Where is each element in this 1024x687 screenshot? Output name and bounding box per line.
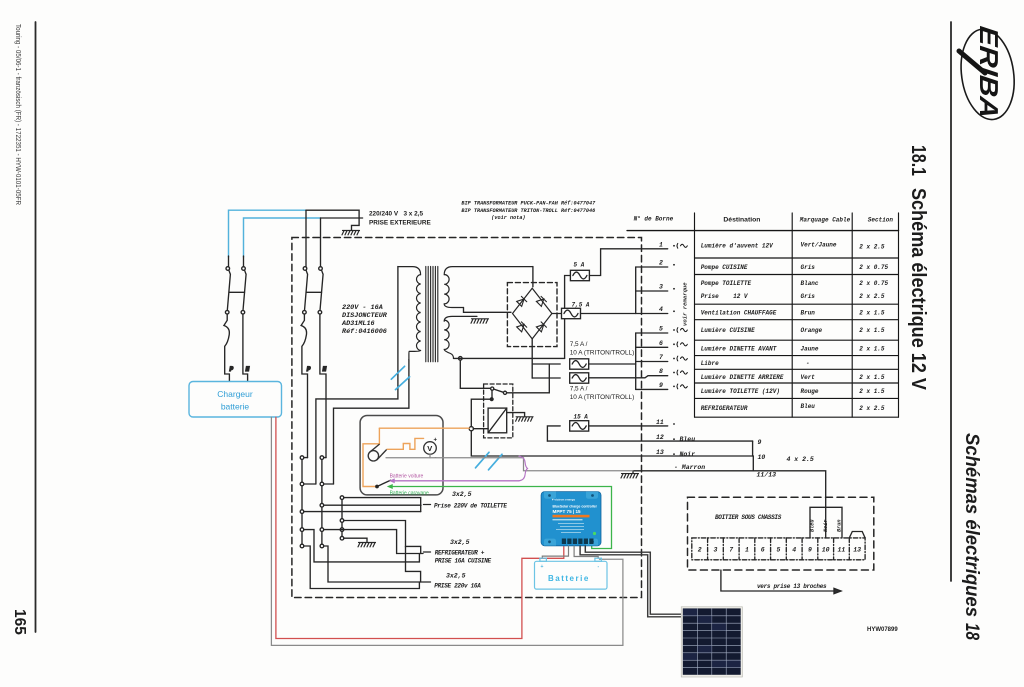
svg-text:3: 3 xyxy=(713,547,717,554)
bridge rectifier dashed box xyxy=(507,283,557,347)
wire to terminal 3 xyxy=(636,290,668,292)
fuse F1 5A xyxy=(570,270,589,280)
svg-text:Brun: Brun xyxy=(801,310,816,317)
wire fuse F2 to terminal 4 xyxy=(581,313,668,315)
label dash toilette xyxy=(424,504,431,506)
svg-text:-: - xyxy=(435,456,437,462)
svg-text:P: P xyxy=(230,366,234,373)
junction dot relay xyxy=(490,398,493,401)
wire line marron to boitier xyxy=(633,471,826,538)
svg-text:Brun: Brun xyxy=(837,520,843,532)
transformer T1 core xyxy=(426,267,438,362)
junction secondary bottom xyxy=(459,357,463,361)
breaker Q1 pole N xyxy=(241,267,248,382)
table vertical col3 xyxy=(851,213,853,417)
breaker Q2 pole N xyxy=(318,267,326,458)
wire 230V rail L to prise exterieure xyxy=(306,210,359,230)
svg-text:Batterie caravane: Batterie caravane xyxy=(390,490,429,496)
svg-text:Vert/Jaune: Vert/Jaune xyxy=(801,242,837,249)
table vertical left edge xyxy=(694,213,696,417)
relay K1 switch to junction xyxy=(491,390,493,399)
svg-text:Batterie: Batterie xyxy=(548,574,590,583)
svg-text:6: 6 xyxy=(761,547,765,554)
svg-text:220V - 16A: 220V - 16A xyxy=(342,304,383,312)
wire mppt bat+ to battery xyxy=(542,546,568,558)
fuse F3 7,5/10A triton xyxy=(570,359,589,369)
svg-text:Batterie voiture: Batterie voiture xyxy=(390,473,424,479)
svg-text:Gris: Gris xyxy=(801,264,816,271)
breaker Q2 tie bar xyxy=(307,291,322,293)
motor drive symbol xyxy=(368,444,386,461)
junction circles bus3 xyxy=(340,496,344,540)
svg-text:(voir nota): (voir nota) xyxy=(491,215,525,221)
fuse F5 15A xyxy=(570,421,589,431)
junction circles bus1 xyxy=(300,456,304,548)
svg-text:220/240 V 3 x 2,5: 220/240 V 3 x 2,5 xyxy=(369,211,423,218)
wire toilette PE xyxy=(344,498,421,512)
svg-text:7,5 A /: 7,5 A / xyxy=(570,341,588,348)
terminal dot 3 xyxy=(673,288,675,290)
ground at transformer center tap xyxy=(471,319,489,323)
wire orange to relay terminal xyxy=(379,427,469,429)
terminal symbol 7 xyxy=(673,356,687,361)
svg-text:Lumière d'auvent 12V: Lumière d'auvent 12V xyxy=(701,243,774,250)
svg-text:+: + xyxy=(541,564,544,570)
ground at relay coil xyxy=(516,417,534,421)
wire refrigerateur label line xyxy=(397,553,423,555)
solar panel PV1 xyxy=(681,607,742,677)
section title 18.1 Schema electrique 12 V xyxy=(907,145,929,391)
svg-text:Noir: Noir xyxy=(680,451,696,458)
svg-text:MPPT 75 | 15: MPPT 75 | 15 xyxy=(553,509,582,514)
svg-text:18.1: 18.1 xyxy=(907,145,929,176)
svg-text:2 x 1.5: 2 x 1.5 xyxy=(859,374,885,381)
svg-text:AD31ML16: AD31ML16 xyxy=(341,320,375,328)
wire prise220 L xyxy=(304,546,420,589)
wire solar PV pair A xyxy=(585,546,682,614)
solar charge controller MPPT xyxy=(541,492,601,546)
svg-text:7,5 A /: 7,5 A / xyxy=(570,386,588,393)
wire coil left lead xyxy=(473,428,488,430)
svg-text:Libre: Libre xyxy=(701,360,719,367)
label 220V 16A disjoncteur xyxy=(341,304,388,336)
node terminal circle relay coil xyxy=(469,427,473,431)
wire charger gray output to battery xyxy=(271,417,623,645)
svg-text:10 A (TRITON/TROLL): 10 A (TRITON/TROLL) xyxy=(570,350,635,357)
table vertical right edge xyxy=(898,213,900,417)
svg-text:7,5 A: 7,5 A xyxy=(572,302,590,309)
bus column 1 vertical xyxy=(301,458,303,546)
table header underline xyxy=(627,230,898,232)
wire refrigerateur L xyxy=(304,530,420,562)
svg-text:2 x 1.5: 2 x 1.5 xyxy=(859,346,885,353)
bus column 3 vertical xyxy=(341,498,343,539)
svg-text:10: 10 xyxy=(758,454,766,461)
svg-text:Marquage Cable: Marquage Cable xyxy=(799,217,851,224)
svg-text:Vert: Vert xyxy=(801,374,816,381)
chapter title Schemas electriques 18 xyxy=(961,433,982,640)
relay K1 switch xyxy=(491,387,507,394)
svg-text:vers prise 13 broches: vers prise 13 broches xyxy=(757,583,827,590)
relay K1 coil xyxy=(488,408,507,433)
battery B1 box xyxy=(535,558,608,589)
svg-text:13: 13 xyxy=(656,449,664,456)
bridge rectifier diamond xyxy=(513,288,552,339)
svg-text:9: 9 xyxy=(808,547,812,554)
svg-text:Lumière DINETTE AVANT: Lumière DINETTE AVANT xyxy=(701,346,777,353)
fuse F4 7,5/10A triton xyxy=(570,373,589,383)
svg-text:5: 5 xyxy=(776,547,780,554)
svg-text:Gris: Gris xyxy=(801,293,816,300)
table row line 2 xyxy=(695,274,899,276)
wire drop to breaker Q2 pole N xyxy=(320,218,322,267)
wire drop to breaker Q1 pole N xyxy=(243,256,245,267)
svg-text:BIP TRANSFORMATEUR PUCK-PAN-FA: BIP TRANSFORMATEUR PUCK-PAN-FAH Réf:0477… xyxy=(461,201,596,207)
svg-text:Touring - 05/06-1 - französisc: Touring - 05/06-1 - französisch (FR) - 1… xyxy=(14,24,23,205)
svg-text:11: 11 xyxy=(656,419,664,426)
wire drop to breaker Q1 pole L xyxy=(228,256,230,267)
diode D1 upper left xyxy=(517,296,527,306)
wire mppt bat- to battery xyxy=(574,546,598,558)
svg-text:2: 2 xyxy=(659,260,663,267)
cable mark battery lines (blue slashes) xyxy=(476,452,503,470)
svg-text:Déstination: Déstination xyxy=(723,217,760,224)
hat over terminal 13 xyxy=(849,532,865,538)
svg-text:5 A: 5 A xyxy=(574,262,585,269)
svg-text:Chargeur: Chargeur xyxy=(217,389,253,399)
terminal dot 4 xyxy=(673,310,675,312)
svg-text:2 x 1.5: 2 x 1.5 xyxy=(859,388,885,395)
svg-text:REFRIGERATEUR: REFRIGERATEUR xyxy=(701,405,748,412)
svg-text:+: + xyxy=(434,438,438,444)
svg-text:5: 5 xyxy=(659,326,663,333)
ERIBA logo xyxy=(956,25,1020,123)
svg-text:Lumière CUISINE: Lumière CUISINE xyxy=(701,327,755,334)
svg-text:11: 11 xyxy=(837,547,845,554)
wire primary bottom lead down xyxy=(334,360,409,485)
terminal dot 11 xyxy=(673,423,675,425)
wire to terminal 5 xyxy=(636,332,668,334)
bracket over terminals 9-11 xyxy=(810,507,842,538)
svg-text:BIP TRANSFORMATEUR TRITON-TROL: BIP TRANSFORMATEUR TRITON-TROLL Réf:0477… xyxy=(461,208,595,214)
svg-text:Schémas électriques: Schémas électriques xyxy=(961,433,982,617)
diode D2 upper right xyxy=(536,296,546,306)
boitier sous chassis dashed box xyxy=(688,497,874,570)
table row line 6 xyxy=(695,355,899,357)
svg-text:Réf:0416006: Réf:0416006 xyxy=(342,328,387,336)
wire toilette N xyxy=(324,504,421,506)
svg-text:Ventilation CHAUFFAGE: Ventilation CHAUFFAGE xyxy=(701,310,777,317)
wire to terminal 6 xyxy=(636,346,668,348)
svg-text:2: 2 xyxy=(698,547,702,554)
svg-text:8: 8 xyxy=(659,368,663,375)
wire 230V rail L (blue feed to charger breakers) xyxy=(229,210,307,257)
svg-text:1: 1 xyxy=(659,242,663,249)
arrow vers prise 13 broches xyxy=(721,570,841,594)
wire charger red output xyxy=(276,417,564,638)
right page rule xyxy=(950,22,952,581)
wire solar PV pair B xyxy=(580,546,682,617)
wire orange shunt to voltmeter xyxy=(387,438,424,449)
svg-text:7: 7 xyxy=(659,354,663,361)
wire coil right lead to ground xyxy=(507,413,525,417)
svg-text:N: N xyxy=(323,366,327,373)
svg-text:P: P xyxy=(307,366,311,373)
wire terminal 2-3 branch vertical xyxy=(635,267,637,314)
wire orange down to selector xyxy=(363,428,379,486)
label dash refrigerateur xyxy=(424,551,431,553)
svg-text:2 x 2.5: 2 x 2.5 xyxy=(859,405,885,412)
svg-text:Pompe TOILETTE: Pompe TOILETTE xyxy=(701,280,752,287)
svg-text:PRISE 16A CUISINE: PRISE 16A CUISINE xyxy=(435,558,492,565)
wire drop to breaker Q2 pole L xyxy=(305,210,307,267)
ground on marron line xyxy=(621,471,639,478)
svg-text:Blanc: Blanc xyxy=(801,280,819,287)
svg-text:Rouge: Rouge xyxy=(801,388,819,395)
breaker Q2 (main) pole L xyxy=(301,267,308,458)
wire line 12 Bleu xyxy=(547,440,752,442)
table row line 7 xyxy=(695,368,899,370)
svg-text:ERIBA: ERIBA xyxy=(974,25,1004,120)
wire to terminal 9 xyxy=(636,388,668,390)
left page rule xyxy=(35,22,37,632)
wire bridge minus to relay switch xyxy=(507,364,550,393)
main caravan dashed box xyxy=(292,238,642,598)
wire refrigerateur N xyxy=(324,530,397,554)
wire voltmeter minus (gray) xyxy=(386,458,633,471)
selector switch lever xyxy=(376,480,391,487)
svg-text:10: 10 xyxy=(822,547,830,554)
wire toilette L xyxy=(304,511,421,513)
tap transformer N to bus2 xyxy=(324,483,334,485)
svg-text:Bleu: Bleu xyxy=(680,436,696,443)
svg-text:9: 9 xyxy=(659,382,663,389)
svg-text:BOITIER SOUS CHASSIS: BOITIER SOUS CHASSIS xyxy=(715,514,782,521)
svg-text:3: 3 xyxy=(659,284,663,291)
terminal dot 13 xyxy=(673,453,675,455)
table row line 9 xyxy=(695,397,899,399)
wire refrigerateur PE prise branch xyxy=(406,546,421,582)
svg-text:13: 13 xyxy=(853,547,861,554)
wire fuse F5 to terminal 11 xyxy=(589,425,668,427)
svg-text:Noir: Noir xyxy=(823,520,829,532)
svg-text:PRISE EXTERIEURE: PRISE EXTERIEURE xyxy=(369,220,432,227)
svg-text:Bleu: Bleu xyxy=(801,403,816,410)
svg-text:2 x 2.5: 2 x 2.5 xyxy=(859,244,885,251)
terminal dot 2 xyxy=(673,264,675,266)
table row line 1 xyxy=(695,257,899,259)
battery switch box U1 xyxy=(360,416,443,495)
svg-text:-: - xyxy=(598,564,600,570)
svg-text:15 A: 15 A xyxy=(574,414,589,421)
svg-text:4 x 2.5: 4 x 2.5 xyxy=(787,456,814,463)
wire prise220 N xyxy=(324,546,423,582)
svg-text:▾ victron energy: ▾ victron energy xyxy=(551,498,575,502)
transformer T1 secondary lower winding xyxy=(444,316,477,358)
wire terminal 5-9 branch vertical xyxy=(635,333,637,389)
wire junction to coil terminal xyxy=(471,399,491,426)
svg-text:4: 4 xyxy=(659,306,663,313)
svg-text:18: 18 xyxy=(961,623,982,640)
wire to terminal 2 xyxy=(636,266,668,268)
wire bridge minus to fuse F3 xyxy=(532,363,560,365)
wire line 13 to marron bracket xyxy=(752,441,755,471)
label dash prise220 xyxy=(424,581,431,583)
wire secondary bottom to relay switch xyxy=(460,360,490,388)
svg-text:2 x 1.5: 2 x 1.5 xyxy=(859,310,885,317)
wire voltmeter minus stub xyxy=(429,455,431,458)
diode D3 lower left xyxy=(517,322,527,332)
wire fuse F4 to terminal 8 xyxy=(589,376,668,378)
svg-text:- Marron: - Marron xyxy=(674,464,705,471)
table vertical col2 xyxy=(791,213,793,417)
wire fuse F1 to terminal 1 xyxy=(589,249,667,276)
svg-text:Lumière DINETTE ARRIERE: Lumière DINETTE ARRIERE xyxy=(701,374,784,381)
wire secondary bottom rail xyxy=(454,357,565,359)
wire secondary top to bridge xyxy=(532,267,534,287)
svg-text:voir remarque: voir remarque xyxy=(682,282,689,326)
wire secondary center tap to bridge xyxy=(464,308,512,313)
svg-text:Section: Section xyxy=(868,217,894,224)
wire batterie voiture (purple) xyxy=(391,456,528,482)
voltmeter V1 xyxy=(424,438,438,462)
svg-text:BlueSolar charge controller: BlueSolar charge controller xyxy=(553,505,598,509)
svg-text:Pompe CUISINE: Pompe CUISINE xyxy=(701,264,748,271)
wire relay terminal to line 13 xyxy=(471,431,752,456)
terminal symbol 6 xyxy=(673,342,687,347)
svg-text:11/13: 11/13 xyxy=(757,472,777,479)
cable mark primary (blue slashes) xyxy=(391,366,409,389)
terminal symbol 8 xyxy=(673,370,687,375)
tap breaker P to bus1 xyxy=(304,457,308,459)
table row line 3 xyxy=(695,303,899,305)
wire fuse F3 to terminals 5-9 xyxy=(589,363,636,365)
svg-text:3x2,5: 3x2,5 xyxy=(450,539,470,546)
tap transformer L to bus1 xyxy=(304,483,316,485)
breaker Q1 tie bar xyxy=(230,291,245,293)
charger box Chargeur batterie xyxy=(189,382,282,418)
svg-text:9: 9 xyxy=(758,439,762,446)
svg-text:REFRIGERATEUR +: REFRIGERATEUR + xyxy=(435,550,485,557)
wire bridge minus down xyxy=(531,339,534,378)
svg-text:-: - xyxy=(806,360,810,367)
table row line 5 xyxy=(695,339,899,341)
ground on PE bus xyxy=(344,538,376,547)
transformer T1 secondary upper winding xyxy=(444,267,533,308)
wire fuse F4 feed xyxy=(532,377,560,379)
wire 230V rail N to prise exterieure xyxy=(321,217,363,219)
wire primary top lead down xyxy=(316,267,398,484)
table row line 4 xyxy=(695,319,899,321)
breaker Q1 (charger) pole L xyxy=(224,267,231,381)
fuse F2 7,5A xyxy=(562,308,581,318)
terminal symbol 5 xyxy=(673,328,687,333)
svg-text:Orange: Orange xyxy=(801,327,823,334)
chassis terminal strip xyxy=(692,538,865,560)
wire to terminal 7 xyxy=(636,361,668,363)
svg-text:2 x 1.5: 2 x 1.5 xyxy=(859,327,885,334)
relay K1 dashed box xyxy=(484,384,513,438)
junction circles bus2 xyxy=(320,456,324,548)
svg-text:batterie: batterie xyxy=(221,402,250,412)
wire refrigerateur PE xyxy=(344,521,421,554)
transformer T1 primary winding xyxy=(398,267,421,360)
svg-text:N: N xyxy=(246,366,250,373)
svg-text:Prise 12 V: Prise 12 V xyxy=(701,293,749,300)
svg-text:1: 1 xyxy=(745,547,749,554)
tap breaker N to bus2 xyxy=(324,457,326,459)
svg-text:10 A (TRITON/TROLL): 10 A (TRITON/TROLL) xyxy=(570,394,635,401)
svg-text:V: V xyxy=(427,444,432,453)
svg-text:HYW07899: HYW07899 xyxy=(867,627,898,633)
wire 230V rail N (blue feed) xyxy=(244,218,321,257)
svg-text:12: 12 xyxy=(656,434,664,441)
terminal symbol 9 xyxy=(673,384,687,389)
terminal dot 12 xyxy=(673,438,675,440)
wire batterie caravane (green) xyxy=(389,485,612,549)
svg-text:Jaune: Jaune xyxy=(801,346,819,353)
table row line 8 xyxy=(695,382,899,384)
table bottom line xyxy=(695,416,899,418)
svg-text:4: 4 xyxy=(792,547,796,554)
svg-text:Lumière TOILETTE (12V): Lumière TOILETTE (12V) xyxy=(701,388,780,395)
svg-text:2 x 0.75: 2 x 0.75 xyxy=(859,264,888,271)
wire 15A feed from line 12 xyxy=(547,426,560,441)
svg-text:3x2,5: 3x2,5 xyxy=(452,491,472,498)
svg-text:N° de Borne: N° de Borne xyxy=(634,216,674,223)
svg-text:2 x 0.75: 2 x 0.75 xyxy=(859,280,888,287)
svg-text:165: 165 xyxy=(11,609,28,635)
terminal symbol 1 xyxy=(673,243,687,248)
wire bridge plus to fuse F2 xyxy=(552,313,562,315)
svg-text:3x2,5: 3x2,5 xyxy=(446,573,466,580)
diode D4 lower right xyxy=(536,322,546,332)
svg-text:Prise 220V de TOILETTE: Prise 220V de TOILETTE xyxy=(434,503,507,510)
svg-text:2 x 2.5: 2 x 2.5 xyxy=(859,293,885,300)
svg-text:Bleu: Bleu xyxy=(810,520,816,532)
bus column 2 vertical xyxy=(321,458,323,546)
ground at prise exterieure xyxy=(342,231,360,235)
svg-text:7: 7 xyxy=(729,547,733,554)
wire secondary rail to fuse F1 xyxy=(565,276,570,359)
svg-text:DISJONCTEUR: DISJONCTEUR xyxy=(342,312,388,320)
svg-text:Schéma électrique 12 V: Schéma électrique 12 V xyxy=(907,188,929,391)
svg-text:PRISE 220v 16A: PRISE 220v 16A xyxy=(434,583,481,590)
svg-text:6: 6 xyxy=(659,340,663,347)
